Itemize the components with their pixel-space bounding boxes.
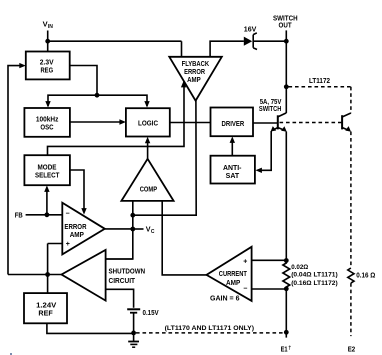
resistor 0.16 ohm (348, 268, 354, 283)
svg-text:CURRENT: CURRENT (219, 269, 247, 278)
node VC lower junction dot (130, 227, 135, 232)
svg-text:−: − (243, 286, 247, 293)
wire top rail from VIN to flyback amp left input (48, 41, 182, 57)
op-amp flyback error amp (169, 57, 222, 101)
svg-text:OSC: OSC (40, 122, 54, 131)
box ANTI-SAT (211, 156, 255, 184)
node ground junction dot (131, 331, 136, 336)
svg-text:REF: REF (38, 309, 53, 318)
svg-text:CIRCUIT: CIRCUIT (109, 276, 136, 285)
op-amp shutdown circuit triangle (62, 250, 106, 301)
svg-text:SELECT: SELECT (35, 170, 60, 179)
wire left rail into 2.3V REG with arrow (8, 63, 26, 275)
label E1 (281, 344, 292, 353)
node VIN label (43, 19, 54, 30)
ground (128, 333, 139, 347)
label SHUTDOWN CIRCUIT (109, 267, 146, 285)
artifact bottom-left (10, 353, 12, 355)
wire current amp minus input (252, 288, 287, 290)
op-amp error amp (62, 203, 105, 255)
node VC label (146, 225, 155, 236)
wire supply rail to OSC and LOGIC with arrows (45, 95, 149, 107)
transistor Q1 5A 75V switch (271, 113, 287, 132)
svg-text:−: − (66, 210, 70, 217)
svg-text:OUT: OUT (279, 21, 292, 30)
wire COMP output up into LOGIC with arrow (145, 137, 150, 159)
wire collector rail down to Q1 (285, 41, 287, 113)
wire MODE SELECT output down into error amp with arrow (70, 170, 87, 215)
svg-text:LOGIC: LOGIC (138, 119, 158, 128)
box DRIVER (211, 108, 254, 137)
svg-text:COMP: COMP (140, 185, 157, 194)
label ANTI-SAT (223, 163, 242, 180)
wire OSC to LOGIC with arrow (70, 119, 126, 124)
label FLYBACK ERROR AMP (182, 59, 210, 84)
wire DRIVER output to Q1 base (253, 122, 278, 124)
svg-text:0.15V: 0.15V (143, 308, 160, 317)
wire dashed resistor to E2 (350, 283, 352, 336)
wire Q1 left emitter to ANTI-SAT with arrow (255, 131, 271, 173)
wire flyback amp right input to zener anode (210, 41, 244, 57)
label MODE SELECT (35, 162, 60, 179)
wire dashed from tap to Q2 collector (289, 87, 351, 113)
label SWITCH OUT (273, 13, 298, 29)
box 1.24V REF (24, 293, 67, 323)
label 2.3V REG (40, 58, 55, 75)
svg-text:AMP: AMP (226, 278, 240, 287)
transistor Q2 external (342, 113, 351, 132)
svg-text:C: C (151, 229, 155, 235)
label 100kHz OSC (36, 114, 59, 131)
wire dashed Q1 base to Q2 base (280, 122, 342, 124)
node supply rail junction dot (95, 93, 100, 98)
op-amp COMP (121, 159, 173, 201)
wire ANTI-SAT output up to DRIVER with arrow (230, 136, 235, 155)
wire emitter rail down to E1 (285, 289, 287, 338)
battery 0.15V (127, 309, 140, 333)
node VIN junction dot (45, 39, 50, 44)
wire error amp output to VC junction (105, 228, 133, 230)
node E1 junction dot (284, 330, 289, 335)
svg-text:†: † (288, 345, 291, 351)
label CURRENT AMP with polarity (219, 259, 247, 293)
svg-text:SAT: SAT (226, 171, 240, 180)
label 5A, 75V SWITCH (259, 97, 282, 113)
svg-text:SWITCH: SWITCH (259, 104, 282, 113)
wire shutdown bottom to battery (106, 289, 134, 308)
label ERROR AMP with polarity (64, 210, 87, 247)
svg-text:DRIVER: DRIVER (222, 119, 245, 128)
wire zener cathode to switch-out junction (253, 40, 286, 42)
wire VIN stub down to 2.3V REG (47, 31, 49, 52)
svg-text:AMP: AMP (187, 75, 201, 84)
wire current amp output to COMP right input (162, 201, 206, 275)
node VC upper junction dot (130, 213, 135, 218)
wire error amp plus input from reference (48, 244, 63, 294)
node sense resistor bottom dot (284, 286, 289, 291)
wire REG output to internal supply rail (70, 66, 97, 96)
node sense resistor top dot (284, 258, 289, 263)
svg-text:LT1172: LT1172 (309, 76, 330, 85)
svg-text:E2: E2 (348, 344, 356, 353)
wire REF bottom to ground node (47, 323, 134, 333)
wire switch-out terminal stub (285, 30, 287, 41)
svg-text:REG: REG (40, 66, 53, 75)
wire dashed Q2 emitter down to 0.16 ohm resistor (350, 132, 352, 269)
node FB junction dot (45, 212, 50, 217)
svg-text:AMP: AMP (70, 230, 84, 239)
box 100kHz OSC (24, 108, 70, 137)
wire LOGIC to DRIVER (170, 122, 211, 124)
wire shutdown top input from VC line (106, 258, 133, 260)
svg-text:+: + (66, 241, 70, 248)
node LT1172 dashed tap dot (284, 84, 289, 89)
wire COMP left input down to VC node (106, 201, 133, 259)
diode zener 16V (244, 33, 257, 50)
resistor 0.02ohm sense (283, 261, 290, 289)
svg-text:(LT1170 AND LT1171 ONLY): (LT1170 AND LT1171 ONLY) (165, 325, 255, 332)
svg-text:(0.16Ω LT1172): (0.16Ω LT1172) (291, 280, 338, 287)
svg-text:0.16 Ω: 0.16 Ω (356, 270, 375, 279)
svg-text:0.02Ω: 0.02Ω (291, 264, 309, 271)
svg-text:SHUTDOWN: SHUTDOWN (109, 267, 146, 276)
wire VC label stub (133, 228, 144, 230)
wire dashed bottom LT1170/71 line (136, 332, 286, 334)
svg-text:+: + (243, 259, 247, 266)
svg-text:16V: 16V (244, 24, 257, 33)
wire shutdown apex line to left rail (8, 274, 62, 276)
wire FB junction up to MODE SELECT with arrow (44, 185, 49, 214)
op-amp current amp (207, 247, 252, 301)
wire current amp plus input (252, 259, 287, 261)
label 0.02 ohm values (291, 264, 338, 287)
wire MODE SELECT top feed line to flyback amp lower input with arrow (48, 81, 187, 155)
wire Q1 emitter down to sense resistor (285, 132, 287, 261)
svg-text:FB: FB (15, 211, 23, 220)
box 2.3V REG U-reg (26, 52, 70, 80)
wire flyback amp output down to VC line (133, 100, 196, 215)
node reference junction dot (45, 272, 50, 277)
node switch-out junction dot (284, 39, 289, 44)
box MODE SELECT (24, 155, 70, 185)
svg-text:E1: E1 (281, 344, 289, 353)
label 1.24V REF (36, 301, 57, 318)
svg-text:(0.04Ω LT1171): (0.04Ω LT1171) (291, 272, 338, 279)
box LOGIC (126, 108, 170, 136)
svg-text:IN: IN (48, 24, 53, 30)
wire FB input line to error amp minus (26, 214, 63, 216)
svg-text:V: V (43, 19, 48, 28)
svg-text:GAIN = 6: GAIN = 6 (210, 294, 240, 303)
